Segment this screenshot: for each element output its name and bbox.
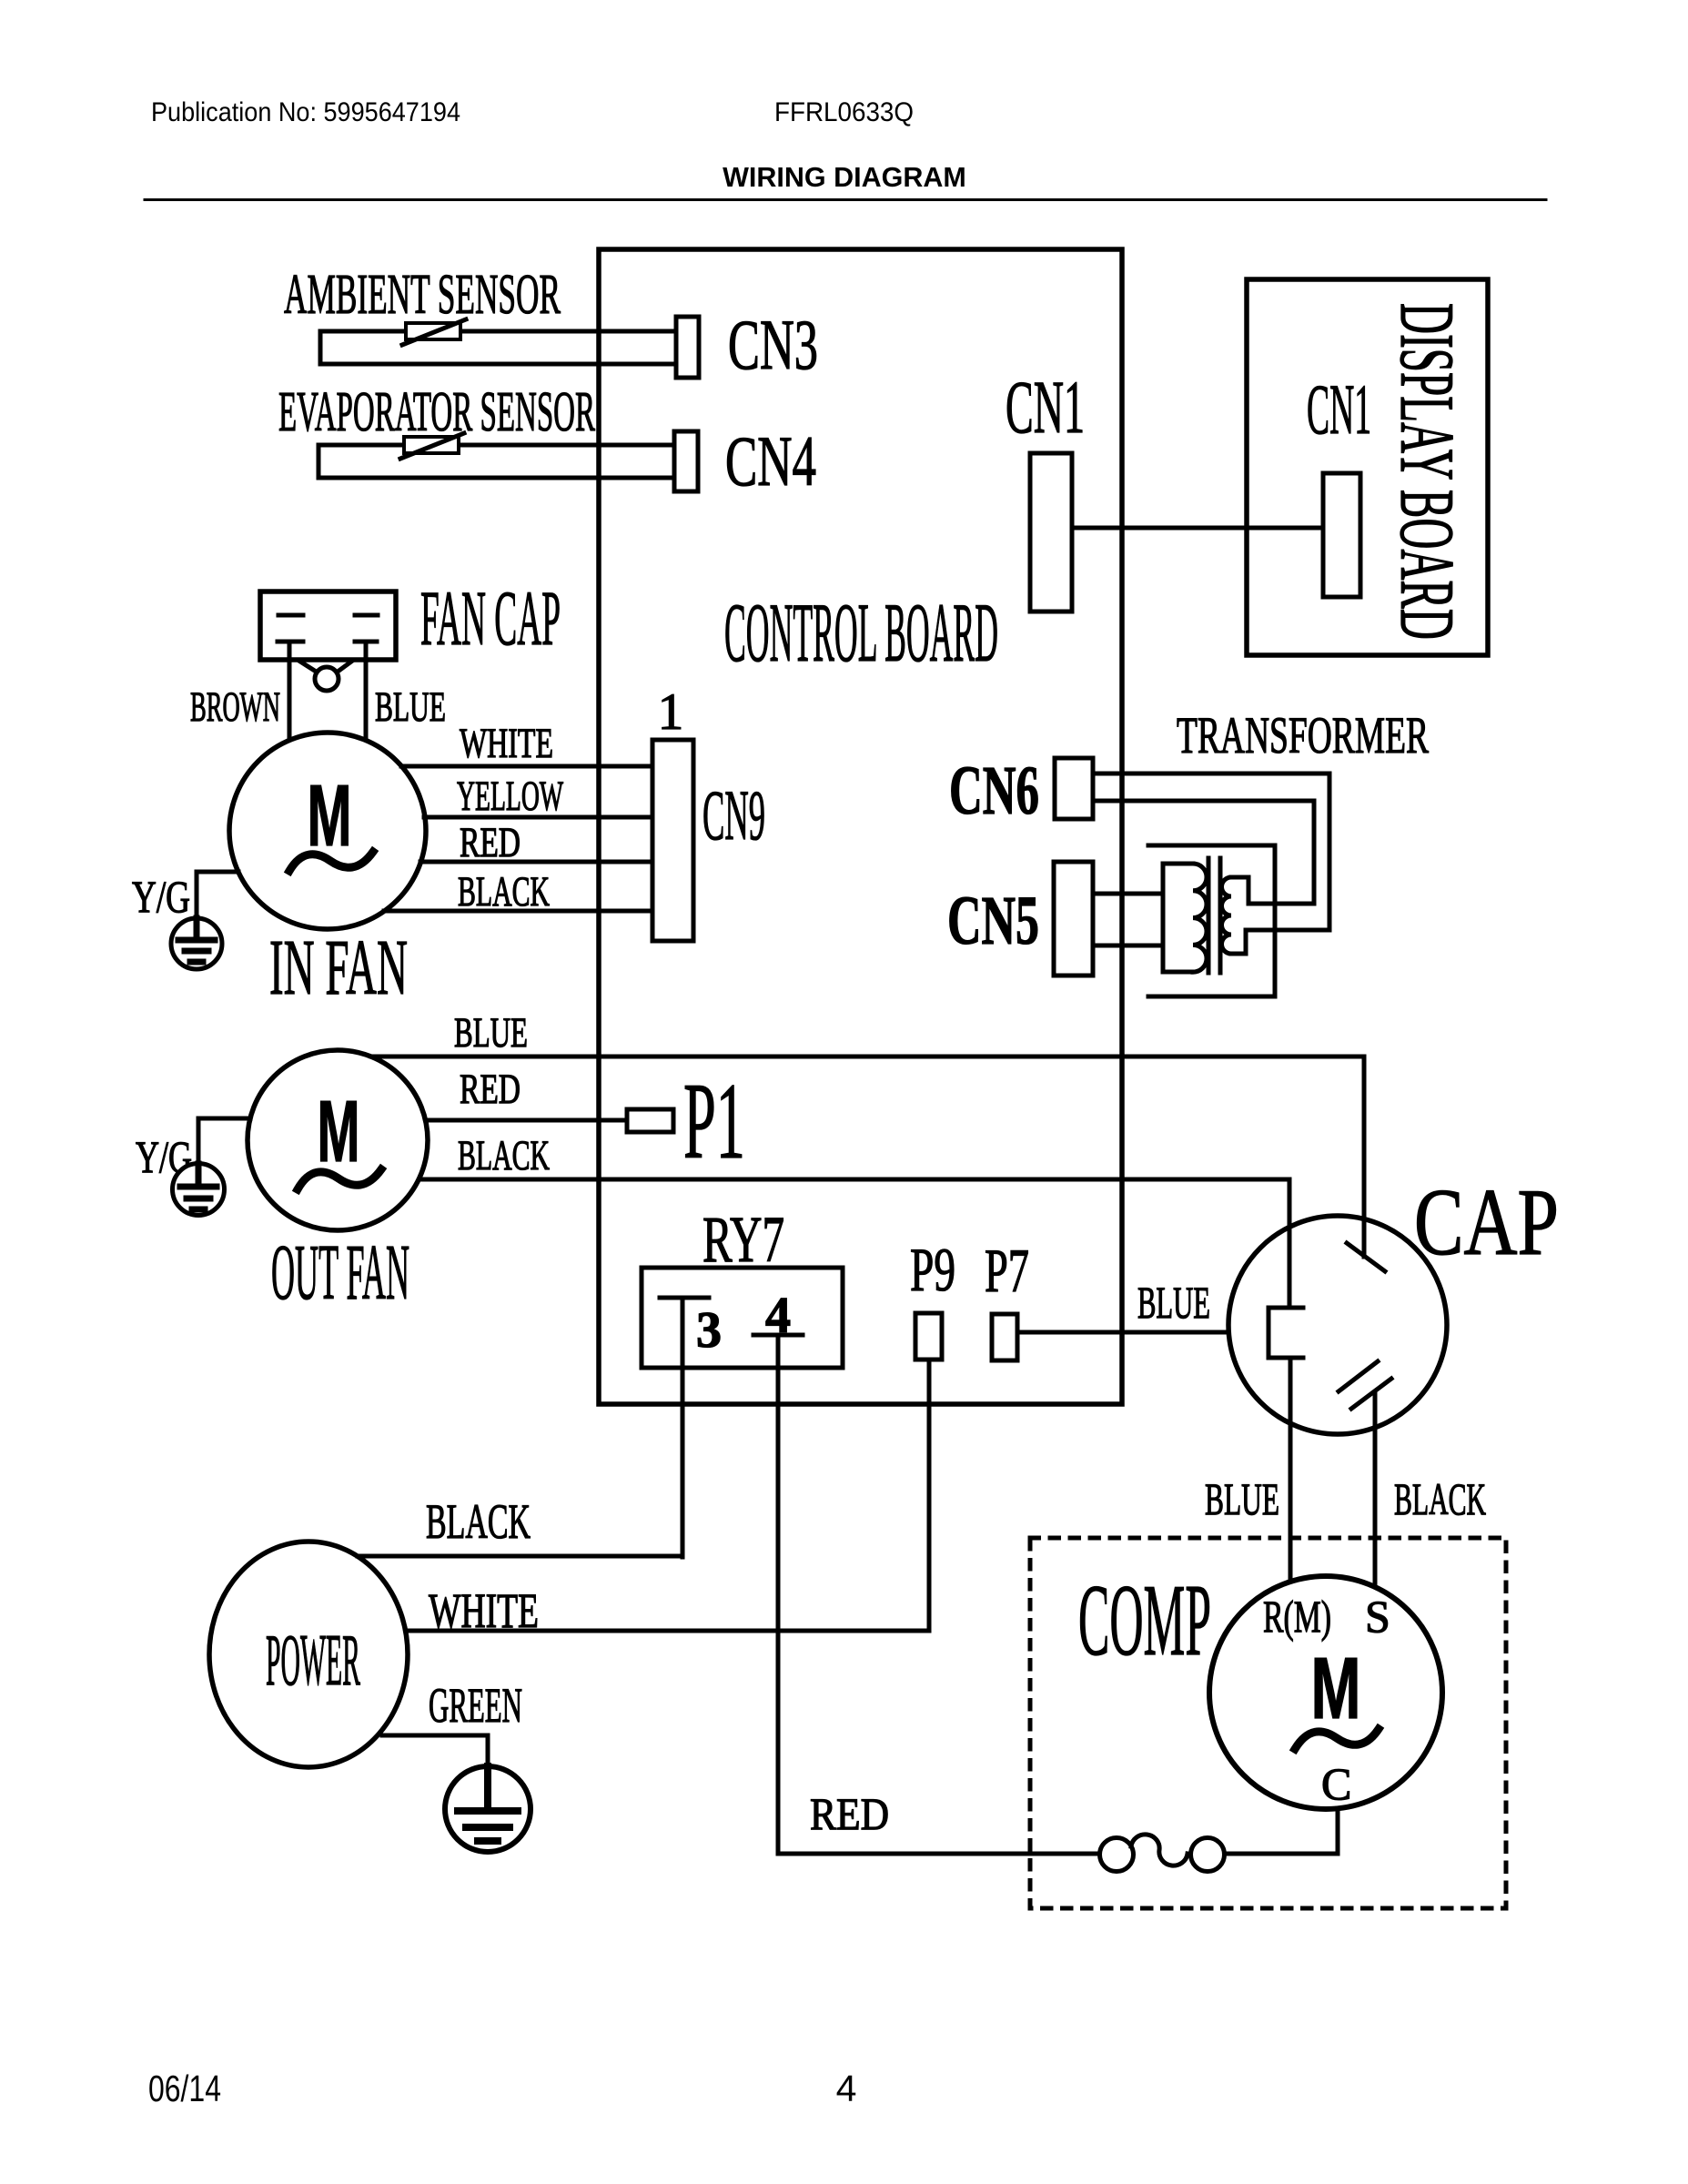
display board connector CN1 [1323, 473, 1360, 597]
wire power BLACK to terminal 3 [358, 1554, 682, 1559]
svg-text:CN4: CN4 [725, 421, 816, 500]
svg-text:S: S [1365, 1591, 1390, 1642]
control board box [599, 249, 1122, 1404]
svg-text:1: 1 [658, 683, 684, 741]
ground (in fan) [171, 918, 222, 969]
connector CN5 [1054, 862, 1093, 976]
svg-text:BLACK: BLACK [458, 1132, 550, 1179]
svg-text:Publication No: 5995647194: Publication No: 5995647194 [151, 97, 460, 127]
svg-text:BLUE: BLUE [1137, 1277, 1210, 1328]
connector P1 [627, 1109, 673, 1132]
svg-text:RED: RED [460, 819, 521, 866]
svg-text:CN5: CN5 [947, 883, 1039, 959]
svg-text:DISPLAY BOARD: DISPLAY BOARD [1384, 303, 1470, 640]
svg-text:CONTROL BOARD: CONTROL BOARD [724, 586, 998, 679]
wire CN5 to transformer primary (upper) [1093, 892, 1163, 896]
wire power GREEN to ground [382, 1735, 488, 1766]
ambient sensor loop wires [320, 331, 676, 364]
svg-text:RED: RED [460, 1066, 521, 1113]
ground (power) [445, 1766, 531, 1852]
svg-text:FAN CAP: FAN CAP [420, 574, 561, 662]
svg-text:P9: P9 [910, 1235, 955, 1304]
fan cap V link [300, 662, 351, 674]
RY7 terminal 3 bar [660, 1296, 709, 1300]
svg-text:M: M [1311, 1640, 1361, 1737]
connector P9 [915, 1313, 942, 1360]
svg-text:RY7: RY7 [702, 1203, 784, 1276]
compressor motor tilde [1295, 1729, 1379, 1749]
ambient sensor thermistor diagonal [402, 319, 466, 345]
svg-text:YELLOW: YELLOW [457, 773, 563, 820]
fan cap lower terminal dashes [278, 640, 377, 644]
connector CN6 [1055, 758, 1093, 819]
svg-text:CN6: CN6 [949, 753, 1039, 829]
wire cap to comp (black) [1373, 1392, 1378, 1587]
wire out fan BLUE to CAP [371, 1057, 1364, 1256]
transformer primary winding [1193, 864, 1207, 972]
svg-text:POWER: POWER [266, 1621, 360, 1701]
svg-text:CN1: CN1 [1006, 365, 1085, 449]
svg-text:P1: P1 [683, 1060, 745, 1181]
svg-text:CAP: CAP [1414, 1168, 1559, 1275]
overload protector right circle [1191, 1838, 1225, 1872]
svg-text:OUT FAN: OUT FAN [271, 1228, 409, 1316]
title rule [145, 198, 1546, 201]
wire CN5 to transformer primary (lower) [1093, 944, 1163, 948]
transformer secondary winding [1222, 877, 1232, 954]
svg-text:WHITE: WHITE [460, 720, 553, 767]
svg-text:R(M): R(M) [1263, 1591, 1331, 1642]
svg-text:M: M [318, 1083, 360, 1180]
motor OUT FAN circle [248, 1050, 428, 1230]
wire out fan to ground [198, 1118, 250, 1164]
svg-text:WIRING DIAGRAM: WIRING DIAGRAM [723, 162, 966, 193]
svg-text:EVAPORATOR SENSOR: EVAPORATOR SENSOR [278, 381, 595, 443]
ground (out fan) [173, 1164, 225, 1216]
transformer core [1208, 858, 1220, 973]
wire blue into cap [1362, 1057, 1367, 1257]
svg-text:Y/G: Y/G [132, 871, 190, 922]
wire power WHITE to P9 [406, 1629, 929, 1633]
wire BLACK to CN9 [384, 909, 652, 914]
svg-text:TRANSFORMER: TRANSFORMER [1177, 707, 1429, 764]
svg-text:BROWN: BROWN [190, 683, 280, 731]
evaporator sensor thermistor body [404, 437, 459, 453]
capacitor CAP circle [1228, 1216, 1447, 1434]
svg-text:BLACK: BLACK [1394, 1473, 1486, 1524]
svg-text:AMBIENT SENSOR: AMBIENT SENSOR [284, 264, 561, 326]
cap upper plate diagonal [1347, 1243, 1385, 1271]
svg-text:BLACK: BLACK [426, 1494, 531, 1549]
svg-text:CN3: CN3 [728, 305, 818, 384]
svg-text:BLACK: BLACK [458, 868, 550, 915]
POWER ellipse [209, 1542, 408, 1767]
svg-text:IN FAN: IN FAN [269, 923, 408, 1011]
cap lower plate diagonal 2 [1351, 1379, 1391, 1409]
wire P7 to CAP (blue) [1017, 1330, 1268, 1335]
svg-text:3: 3 [696, 1302, 722, 1359]
wire out fan BLACK to CAP [419, 1179, 1289, 1308]
ambient sensor thermistor body [406, 323, 460, 339]
wire fan cap to motor (blue) [364, 642, 369, 741]
control board connector CN1 [1030, 453, 1072, 612]
connector P7 [992, 1314, 1017, 1360]
evaporator sensor loop wires [318, 445, 674, 478]
motor IN FAN circle [229, 733, 426, 929]
wire C terminal to overload [1224, 1808, 1338, 1854]
connector CN3 [676, 317, 699, 378]
fan cap upper terminal dashes [278, 613, 378, 618]
display board box [1247, 279, 1488, 655]
wire WHITE to CN9 [401, 764, 652, 769]
svg-text:COMP: COMP [1078, 1564, 1211, 1677]
wire P9 down to white [927, 1360, 932, 1631]
cap lower plate diagonal 1 [1339, 1361, 1378, 1391]
wire terminal 4 down (RED) to overload [778, 1335, 1099, 1854]
wire RED to CN9 [420, 860, 652, 864]
svg-text:06/14: 06/14 [148, 2068, 221, 2109]
overload protector wavy link [1131, 1835, 1188, 1865]
wire CN1 to CN1 [1072, 526, 1323, 531]
svg-text:BLUE: BLUE [375, 683, 446, 731]
IN FAN motor tilde [289, 852, 373, 871]
svg-text:RED: RED [810, 1788, 889, 1839]
cap left terminal bracket [1269, 1308, 1303, 1358]
svg-text:FFRL0633Q: FFRL0633Q [774, 97, 914, 127]
RY7 terminal 4 bar [753, 1333, 803, 1338]
wire terminal 3 down to power black [681, 1298, 685, 1557]
wire cap to comp (blue) [1289, 1358, 1293, 1582]
fan cap common node circle [315, 667, 339, 691]
evaporator sensor thermistor diagonal [400, 433, 464, 459]
wire CN6 to transformer secondary (lower) [1093, 773, 1329, 954]
connector CN9 [652, 740, 693, 941]
svg-text:GREEN: GREEN [429, 1678, 522, 1733]
wire CN6 to transformer secondary (upper) [1093, 801, 1314, 904]
wire fan cap to motor (brown) [288, 642, 292, 741]
wire in fan to ground [197, 872, 238, 918]
wire YELLOW to CN9 [424, 815, 652, 820]
wire out fan RED to P1 [426, 1118, 627, 1123]
wire black into cap [1288, 1179, 1292, 1308]
FAN CAP box [260, 591, 396, 660]
svg-text:CN9: CN9 [702, 775, 765, 854]
COMP dotted enclosure [1030, 1538, 1506, 1908]
connector CN4 [674, 431, 698, 491]
svg-text:C: C [1321, 1758, 1351, 1809]
svg-text:BLUE: BLUE [454, 1009, 528, 1057]
transformer outer shield bracket [1148, 845, 1275, 996]
svg-text:BLUE: BLUE [1205, 1473, 1279, 1524]
overload protector left circle [1100, 1838, 1134, 1872]
relay RY7 box [642, 1268, 843, 1368]
svg-text:CN1: CN1 [1307, 369, 1371, 449]
transformer primary bracket [1163, 864, 1193, 972]
svg-text:P7: P7 [985, 1236, 1029, 1305]
svg-text:M: M [308, 767, 352, 864]
compressor motor circle [1209, 1576, 1442, 1809]
OUT FAN motor tilde [298, 1169, 381, 1189]
svg-text:4: 4 [836, 2068, 857, 2109]
